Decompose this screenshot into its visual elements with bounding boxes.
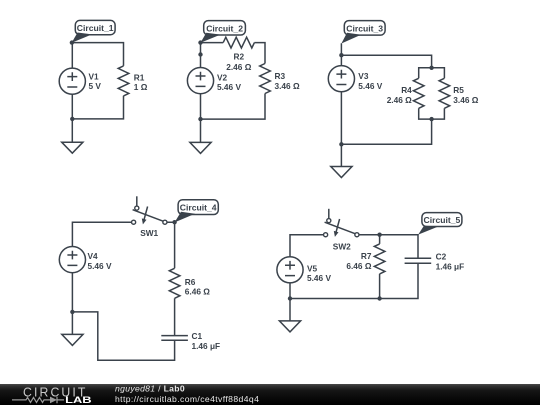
svg-text:R4: R4 bbox=[401, 85, 412, 95]
svg-text:6.46 Ω: 6.46 Ω bbox=[346, 261, 371, 271]
svg-text:Circuit_2: Circuit_2 bbox=[206, 23, 243, 33]
svg-text:6.46 Ω: 6.46 Ω bbox=[185, 287, 210, 297]
svg-text:LAB: LAB bbox=[65, 395, 92, 405]
svg-text:5.46 V: 5.46 V bbox=[88, 261, 112, 271]
svg-text:Circuit_1: Circuit_1 bbox=[77, 23, 114, 33]
svg-text:SW1: SW1 bbox=[140, 228, 158, 238]
svg-text:SW2: SW2 bbox=[333, 242, 351, 252]
svg-text:1 Ω: 1 Ω bbox=[134, 82, 148, 92]
svg-text:http://circuitlab.com/ce4tvff8: http://circuitlab.com/ce4tvff88d4q4 bbox=[115, 394, 259, 404]
svg-text:Circuit_3: Circuit_3 bbox=[346, 23, 383, 33]
svg-text:nguyed81 / Lab0: nguyed81 / Lab0 bbox=[115, 384, 185, 394]
svg-text:5.46 V: 5.46 V bbox=[217, 82, 241, 92]
svg-text:5.46 V: 5.46 V bbox=[358, 81, 382, 91]
svg-text:5 V: 5 V bbox=[89, 81, 102, 91]
svg-text:3.46 Ω: 3.46 Ω bbox=[453, 95, 478, 105]
svg-text:1.46 μF: 1.46 μF bbox=[192, 341, 221, 351]
svg-text:Circuit_5: Circuit_5 bbox=[424, 215, 461, 225]
svg-text:R5: R5 bbox=[453, 85, 464, 95]
svg-text:V1: V1 bbox=[89, 72, 100, 82]
svg-text:V2: V2 bbox=[217, 72, 228, 82]
svg-text:R7: R7 bbox=[361, 251, 372, 261]
svg-text:V4: V4 bbox=[88, 251, 99, 261]
svg-text:R2: R2 bbox=[233, 52, 244, 62]
svg-text:Circuit_4: Circuit_4 bbox=[180, 203, 217, 213]
svg-text:5.46 V: 5.46 V bbox=[307, 273, 331, 283]
svg-text:3.46 Ω: 3.46 Ω bbox=[275, 81, 300, 91]
svg-text:2.46 Ω: 2.46 Ω bbox=[226, 62, 251, 72]
svg-text:V3: V3 bbox=[358, 71, 369, 81]
svg-text:2.46 Ω: 2.46 Ω bbox=[387, 95, 412, 105]
svg-text:V5: V5 bbox=[307, 263, 318, 273]
svg-text:C1: C1 bbox=[192, 331, 203, 341]
svg-text:R3: R3 bbox=[275, 71, 286, 81]
svg-text:R6: R6 bbox=[185, 277, 196, 287]
svg-text:1.46 μF: 1.46 μF bbox=[436, 261, 465, 271]
svg-text:C2: C2 bbox=[436, 252, 447, 262]
